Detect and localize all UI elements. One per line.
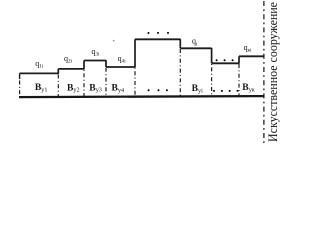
baseline (ground line) bbox=[19, 96, 264, 97]
svg-text:Ву1: Ву1 bbox=[35, 82, 48, 93]
riser step4-tall block bbox=[134, 39, 136, 67]
svg-text:qi: qi bbox=[192, 37, 198, 48]
svg-text:Искусственное сооружение: Искусственное сооружение bbox=[266, 1, 280, 142]
svg-text:Ву4: Ву4 bbox=[112, 82, 125, 93]
svg-text:Ву3: Ву3 bbox=[89, 82, 102, 93]
svg-text:Вуi: Вуi bbox=[192, 83, 204, 94]
faint speckle bbox=[113, 40, 115, 42]
riser step2-step3 bbox=[83, 61, 85, 70]
step q1 top line bbox=[20, 72, 59, 74]
step q3 top line bbox=[84, 60, 106, 62]
divider below riser7 (dash-dot) bbox=[238, 64, 240, 96]
structure boundary dash-dot line bbox=[263, 1, 265, 144]
riser tall block - qi (drop) bbox=[179, 39, 181, 48]
ellipsis dots above tall block bbox=[148, 32, 150, 34]
svg-text:q1i: q1i bbox=[35, 59, 44, 70]
ellipsis dots bottom row B bbox=[213, 90, 215, 92]
step q2 top line bbox=[58, 68, 84, 70]
divider below riser6 (dash-dot) bbox=[211, 64, 213, 96]
svg-text:q3i: q3i bbox=[91, 47, 100, 58]
divider below riser3 (dash-dot) bbox=[105, 68, 107, 96]
step q4 top line bbox=[106, 66, 135, 68]
svg-text:qкi: qкi bbox=[244, 43, 253, 54]
divider below riser2 (dash-dot) bbox=[83, 70, 85, 96]
divider below tall block right edge (dash-dot) bbox=[179, 49, 181, 96]
ellipsis dots above lower level bbox=[216, 59, 218, 61]
divider below riser1 (dash-dot) bbox=[57, 75, 59, 97]
svg-text:q4i: q4i bbox=[118, 54, 127, 65]
divider below riser4 (dash-dot) bbox=[134, 68, 136, 96]
svg-text:q2i: q2i bbox=[64, 54, 73, 65]
lower level line bbox=[212, 62, 239, 64]
left edge divider (dash-dot) bbox=[19, 73, 21, 79]
riser qi - lower level (drop) bbox=[211, 48, 213, 63]
riser step1-step2 bbox=[57, 69, 59, 74]
riser lower level - qki bbox=[238, 56, 240, 63]
riser step3-step4 (drop) bbox=[105, 60, 107, 67]
ellipsis dots bottom row A bbox=[148, 89, 150, 91]
svg-text:Вук: Вук bbox=[242, 82, 256, 93]
qki top line bbox=[239, 55, 264, 57]
svg-text:Ву2: Ву2 bbox=[67, 82, 80, 93]
qi level line bbox=[180, 47, 211, 49]
tall block top line bbox=[135, 38, 180, 40]
